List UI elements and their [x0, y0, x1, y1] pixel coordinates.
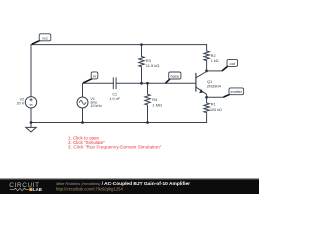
wire left rail V2 top: [30, 45, 32, 97]
svg-text:11.5 kΩ: 11.5 kΩ: [146, 63, 160, 68]
node base flag: [166, 72, 181, 83]
svg-text:10 kHz: 10 kHz: [90, 104, 102, 108]
labels: [17, 54, 222, 112]
voltage source V2: [25, 97, 36, 108]
ground: [26, 123, 36, 133]
svg-text:vcc: vcc: [42, 35, 48, 40]
svg-text:1 MΩ: 1 MΩ: [152, 102, 162, 107]
svg-text:3. Click "Run Frequency-Domain: 3. Click "Run Frequency-Domain Simulatio…: [68, 145, 162, 150]
ground rail: [31, 122, 207, 124]
svg-text:out: out: [230, 61, 236, 66]
svg-text:1.0 nF: 1.0 nF: [109, 97, 120, 101]
svg-text:100 kΩ: 100 kΩ: [210, 108, 222, 112]
node in flag: [84, 72, 98, 83]
footer bar: [0, 179, 259, 195]
svg-text:LAB: LAB: [33, 187, 42, 192]
svg-text:R1: R1: [211, 102, 216, 106]
transistor Q1 emitter arrow: [199, 89, 203, 93]
svg-text:20 V: 20 V: [17, 101, 25, 105]
wire V2 bottom: [30, 108, 32, 123]
svg-text:in: in: [93, 73, 96, 78]
resistor R2: [204, 45, 209, 71]
node junction dots: [30, 43, 208, 124]
footer logo zigzag wire: [10, 188, 29, 191]
svg-text:2N3904: 2N3904: [207, 83, 222, 88]
node out flag: [207, 59, 238, 71]
wire C1 to base row: [116, 82, 196, 84]
svg-text:emitter: emitter: [230, 90, 242, 94]
wire V1 bottom: [82, 108, 84, 123]
footer logo orange mark: [29, 188, 32, 191]
svg-text:1 kΩ: 1 kΩ: [211, 59, 219, 63]
resistor R3: [139, 45, 144, 84]
svg-text:C1: C1: [112, 93, 117, 97]
capacitor C1: [113, 78, 116, 89]
voltage source V1: [77, 97, 88, 108]
node emitter flag: [207, 88, 244, 97]
svg-text:http://circuitlab.com/c79z92pk: http://circuitlab.com/c79z92pkg1254: [56, 186, 123, 191]
wire top rail vcc: [31, 44, 207, 46]
svg-text:base: base: [170, 74, 179, 79]
resistor R1: [204, 97, 209, 122]
wire V1 top: [83, 83, 114, 97]
node vcc flag: [32, 34, 50, 44]
resistor R4: [145, 83, 150, 122]
annotation red instructions: [68, 135, 162, 149]
transistor Q1: [196, 71, 207, 97]
svg-text:R2: R2: [211, 54, 216, 58]
